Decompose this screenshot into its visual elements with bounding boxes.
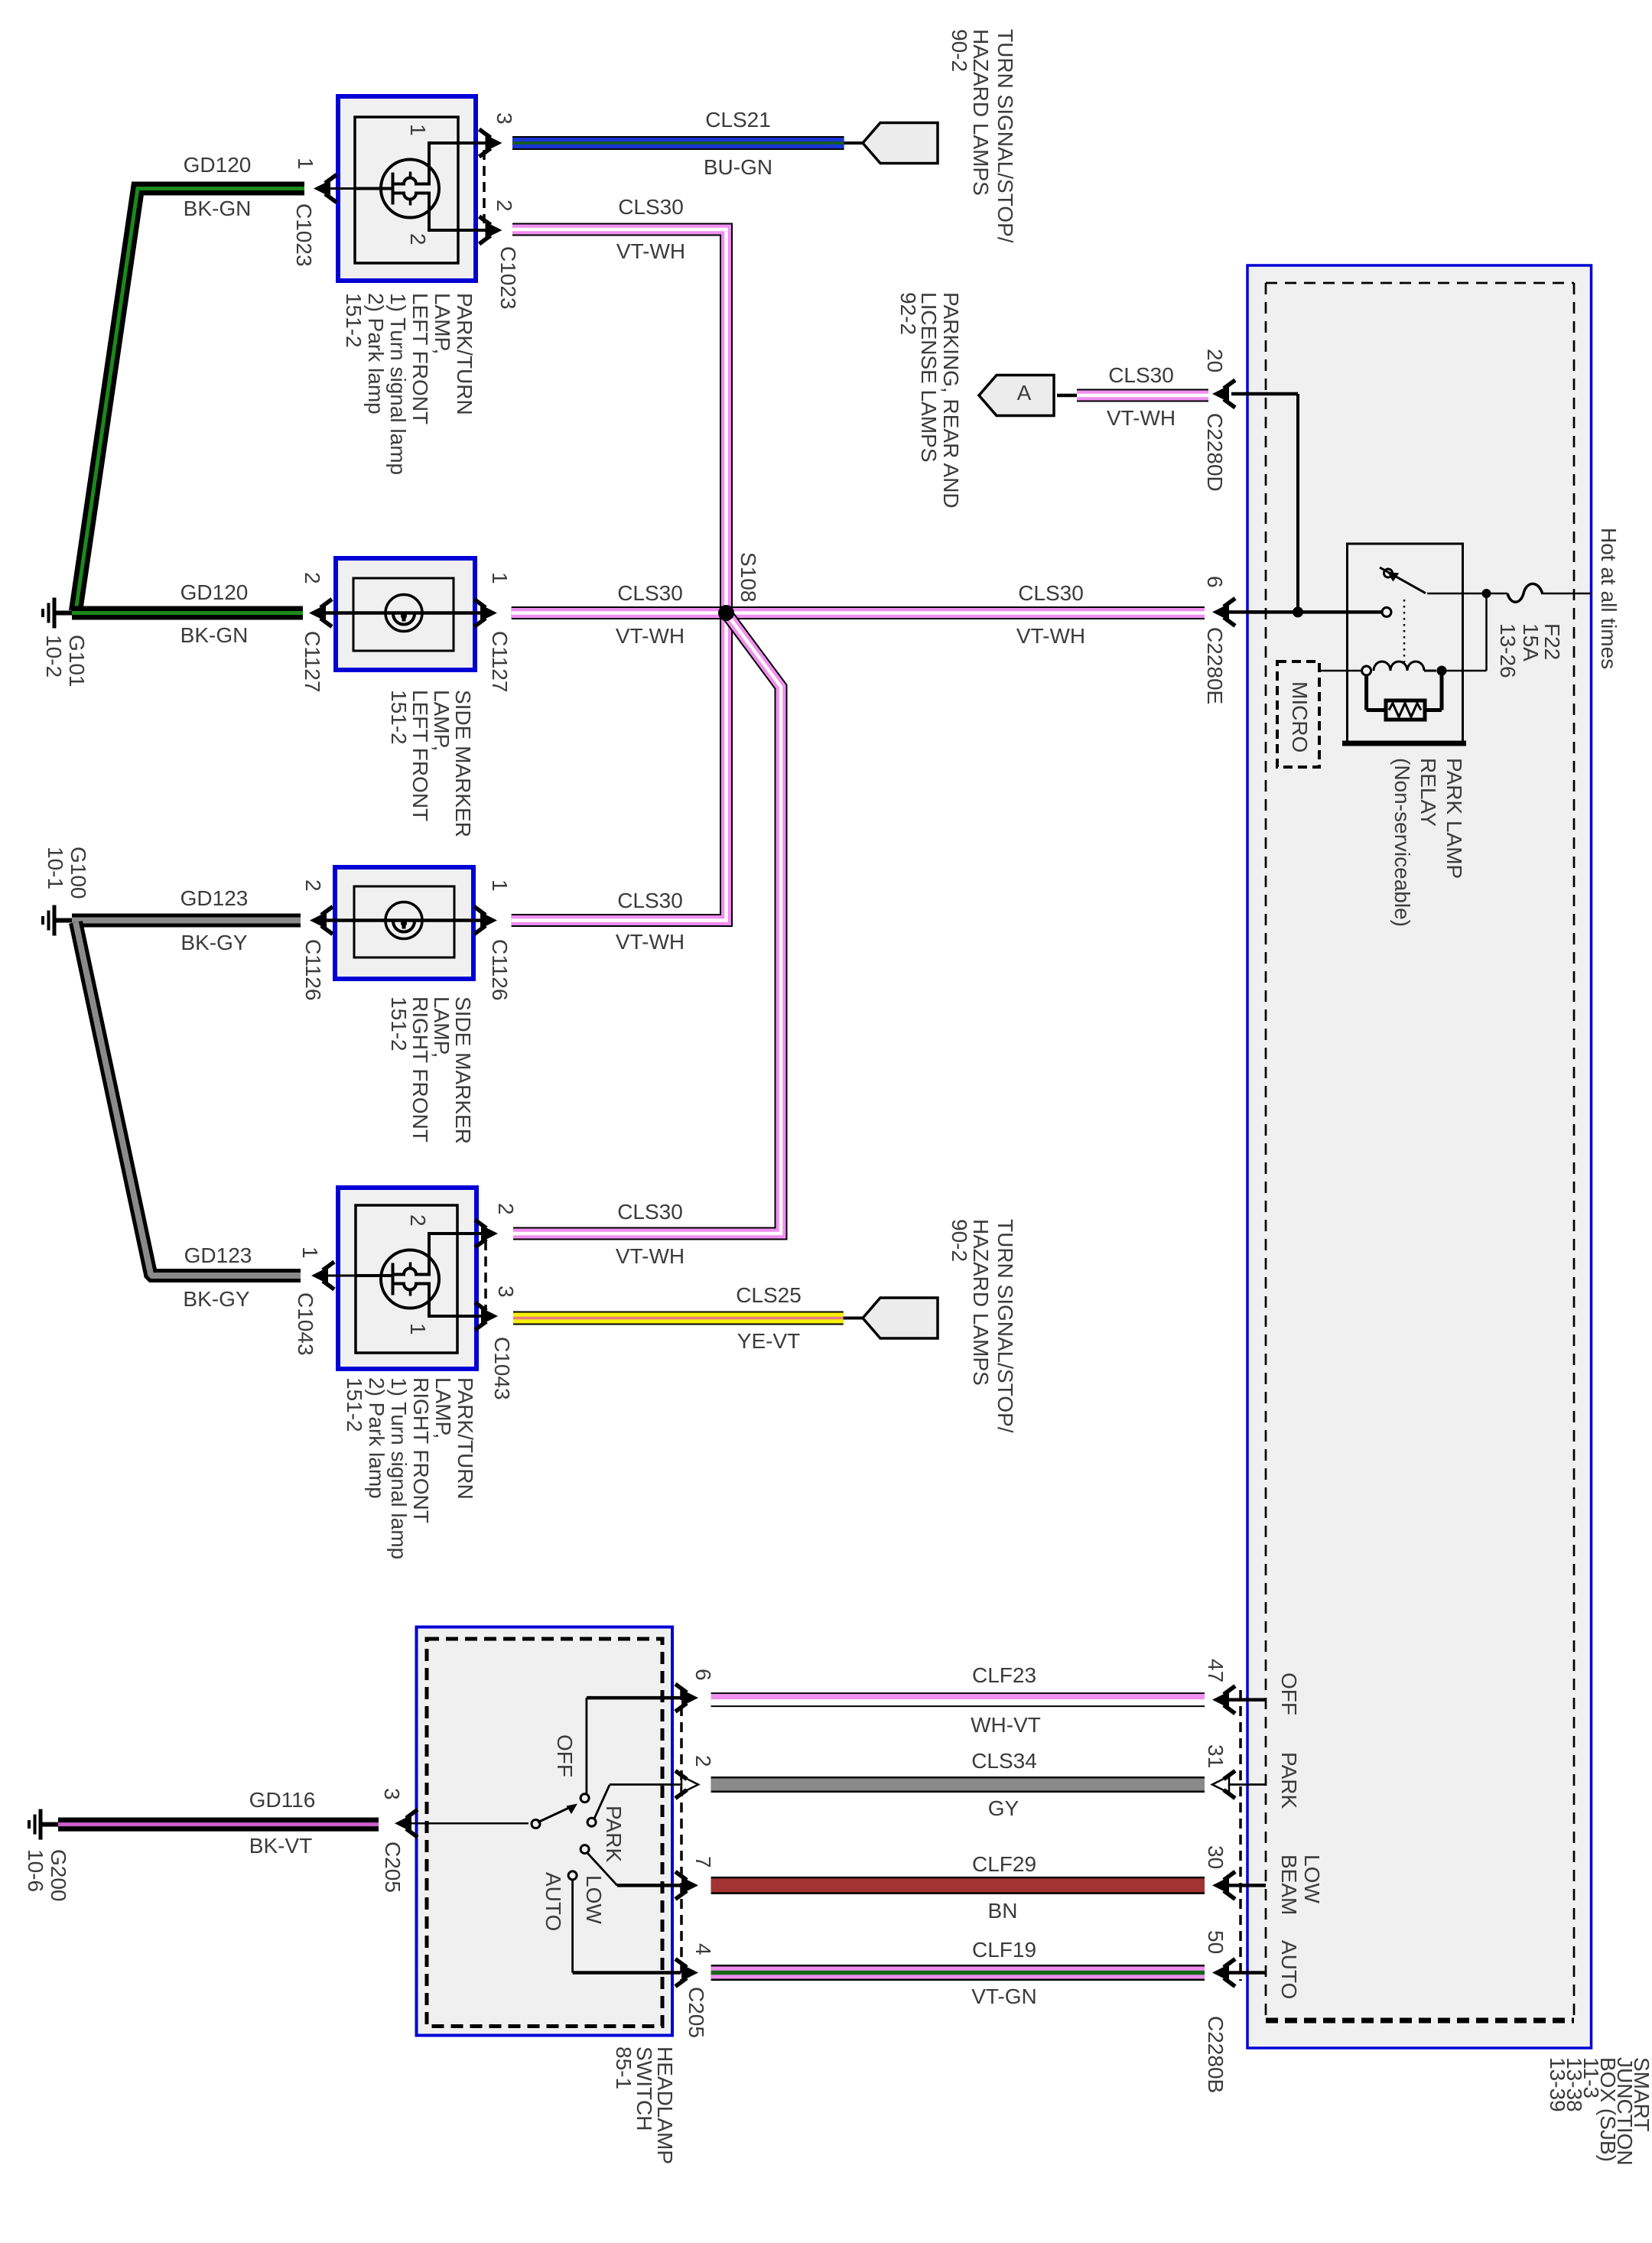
svg-text:30: 30	[1204, 1845, 1228, 1869]
bulb park/turn right	[381, 1250, 439, 1308]
wire label CLS34	[971, 1749, 1037, 1773]
wire CLS30 S108 down to side marker right	[512, 613, 727, 921]
svg-text:10-1: 10-1	[44, 847, 67, 889]
svg-text:SIDE MARKER: SIDE MARKER	[451, 690, 475, 837]
wire label CLS25	[736, 1283, 802, 1307]
label AUTO (SJB)	[1277, 1940, 1301, 1999]
connector C2280E label	[1203, 627, 1227, 704]
svg-text:CLS30: CLS30	[1108, 363, 1174, 387]
pin 2 arrow	[480, 216, 502, 244]
net label Hot at all times	[1597, 528, 1621, 669]
svg-text:10-2: 10-2	[42, 635, 66, 678]
wire label CLF19	[972, 1938, 1036, 1962]
switch label HEADLAMP SWITCH 85-1	[612, 2046, 677, 2164]
connector C1023 label left	[292, 203, 316, 267]
component label side marker lamp right front	[387, 996, 475, 1144]
svg-text:1: 1	[488, 879, 512, 892]
wire CLF29 BN	[711, 1877, 1205, 1894]
pin 2 label	[301, 572, 324, 584]
svg-text:C1023: C1023	[292, 203, 316, 267]
label PARK (SJB)	[1277, 1752, 1301, 1809]
relay NO contact	[1382, 607, 1391, 616]
svg-text:1: 1	[406, 1323, 430, 1335]
component label park/turn lamp right front	[343, 1377, 477, 1559]
svg-text:G101: G101	[65, 635, 89, 688]
svg-text:2: 2	[493, 200, 516, 212]
svg-text:47: 47	[1204, 1659, 1228, 1682]
svg-text:CLS30: CLS30	[617, 889, 683, 912]
wire label YE-VT	[737, 1329, 800, 1353]
svg-text:VT-WH: VT-WH	[616, 1244, 685, 1268]
ground G100	[43, 905, 72, 936]
svg-text:85-1: 85-1	[612, 2046, 636, 2089]
svg-text:LAMP,: LAMP,	[431, 293, 454, 354]
svg-text:1) Turn signal lamp: 1) Turn signal lamp	[386, 293, 410, 475]
pin 47 label	[1204, 1659, 1228, 1682]
MICRO dashed box	[1277, 662, 1319, 767]
pin 31 label	[1204, 1744, 1228, 1768]
svg-text:2) Park lamp: 2) Park lamp	[365, 1377, 389, 1499]
svg-text:BN: BN	[988, 1899, 1018, 1923]
svg-text:3: 3	[494, 1286, 518, 1298]
switch LOW contact	[580, 1845, 589, 1854]
wire relay coil to micro	[1319, 670, 1362, 672]
svg-text:HAZARD LAMPS: HAZARD LAMPS	[969, 29, 993, 196]
pin 30 arrow	[1212, 1871, 1266, 1899]
svg-text:PARK: PARK	[602, 1806, 626, 1862]
svg-text:MICRO: MICRO	[1288, 681, 1312, 753]
label OFF	[553, 1734, 577, 1777]
pin 50 arrow	[1212, 1959, 1266, 1987]
svg-text:C2280E: C2280E	[1203, 627, 1227, 704]
svg-text:VT-WH: VT-WH	[1107, 406, 1176, 430]
wire CLS30 from park/turn left pin 2 down to S108	[512, 229, 727, 613]
svg-text:BK-GN: BK-GN	[180, 623, 249, 647]
svg-text:LOW: LOW	[582, 1875, 606, 1924]
switch arm	[538, 1804, 577, 1823]
wire fuse to relay coil	[1485, 593, 1488, 671]
relay coil link dotted	[1403, 600, 1406, 664]
pin 6 label	[691, 1669, 715, 1681]
wire CLS25 YE-VT	[513, 1312, 844, 1325]
off-page connector to turn signal lamps (top)	[863, 123, 938, 164]
wire pin2 internal	[429, 1232, 492, 1235]
svg-text:BK-GN: BK-GN	[184, 197, 252, 220]
wire label BK-GN	[180, 623, 249, 647]
pin 3 arrow	[480, 129, 502, 157]
net label TURN SIGNAL/STOP/ HAZARD LAMPS 90-2 (bottom)	[948, 1219, 1017, 1433]
pin 1 arrow	[311, 1262, 356, 1289]
svg-text:CLS30: CLS30	[618, 195, 684, 219]
relay NC contact	[1384, 569, 1393, 577]
svg-text:151-2: 151-2	[342, 293, 366, 348]
pin 30 label	[1204, 1845, 1228, 1869]
svg-text:LAMP,: LAMP,	[430, 690, 454, 751]
switch common contact	[532, 1820, 540, 1829]
svg-text:LOW: LOW	[1300, 1855, 1324, 1903]
pin 2 label	[691, 1755, 715, 1767]
wire label CLS30	[617, 1200, 683, 1224]
pin 3 label	[493, 112, 516, 125]
pin 3 arrow	[475, 1302, 498, 1330]
svg-text:GY: GY	[988, 1796, 1019, 1820]
svg-text:C1023: C1023	[496, 246, 520, 310]
side marker lamp left front box	[336, 558, 475, 670]
svg-text:1: 1	[406, 124, 430, 136]
svg-text:151-2: 151-2	[387, 996, 411, 1052]
svg-text:6: 6	[691, 1669, 715, 1681]
svg-text:C1043: C1043	[490, 1337, 514, 1400]
svg-text:2: 2	[406, 233, 430, 245]
off-page connector to turn signal lamps (bottom)	[863, 1298, 938, 1338]
connector C205 dashed line	[680, 1690, 683, 1981]
wire junction up to pin 20	[1231, 394, 1298, 612]
fuse F22 15A	[1427, 584, 1591, 602]
connector C2280B label	[1204, 2016, 1228, 2093]
svg-text:AUTO: AUTO	[541, 1872, 565, 1931]
svg-text:YE-VT: YE-VT	[737, 1329, 800, 1353]
wire CLF19 VT-GN	[711, 1965, 1205, 1981]
splice S108	[718, 605, 734, 621]
wire label WH-VT	[971, 1713, 1041, 1737]
headlamp switch box	[417, 1627, 673, 2036]
bulb side marker left	[385, 595, 422, 632]
svg-text:C2280B: C2280B	[1204, 2016, 1228, 2093]
svg-text:6: 6	[1203, 576, 1227, 588]
svg-text:RIGHT FRONT: RIGHT FRONT	[409, 1377, 433, 1523]
pin 6 label	[1203, 576, 1227, 588]
pin 50 label	[1204, 1930, 1228, 1954]
Smart Junction Box (SJB) outline	[1247, 265, 1592, 2048]
wire GD123 BK-GY	[72, 914, 301, 928]
ground G101	[43, 598, 72, 629]
pin 2 arrow	[475, 1220, 498, 1247]
pin 1 arrow	[474, 600, 497, 627]
connector C2280D label	[1203, 413, 1227, 492]
pin 47 arrow	[1212, 1686, 1266, 1714]
pin 2 label	[301, 879, 325, 892]
wire label CLS30	[617, 889, 683, 912]
pin 1 label (internal)	[406, 124, 430, 136]
wire GD120 BK-GN upper+diagonal	[76, 189, 304, 612]
wire GD123 diagonal+lower	[76, 922, 301, 1276]
pin 2 arrow	[675, 1771, 698, 1799]
wire CLS30 S108 to SJB pin 6	[727, 606, 1205, 619]
wire pin2 internal	[429, 229, 492, 232]
bulb internal wiring left	[355, 141, 429, 232]
svg-text:G200: G200	[47, 1849, 70, 1902]
pin 3 arrow	[395, 1809, 418, 1837]
MICRO label	[1288, 681, 1312, 753]
svg-text:C205: C205	[381, 1842, 405, 1893]
wire label CLF23	[972, 1663, 1036, 1687]
svg-text:PARK LAMP: PARK LAMP	[1442, 758, 1466, 879]
svg-text:CLS30: CLS30	[1018, 581, 1084, 605]
svg-text:CLS34: CLS34	[971, 1749, 1037, 1773]
svg-text:1) Turn signal lamp: 1) Turn signal lamp	[387, 1377, 411, 1559]
svg-text:CLS30: CLS30	[617, 1200, 683, 1224]
SJB inner dashed border	[1266, 283, 1574, 2020]
relay label PARK LAMP RELAY (Non-serviceable)	[1390, 758, 1466, 927]
svg-text:LAMP,: LAMP,	[430, 996, 454, 1058]
pin 2 arrow	[309, 600, 332, 627]
label AUTO	[541, 1872, 565, 1931]
splice label S108	[737, 552, 760, 602]
svg-text:2: 2	[301, 572, 324, 584]
relay coil	[1362, 662, 1487, 676]
label OFF (SJB)	[1277, 1672, 1301, 1715]
svg-text:PARK/TURN: PARK/TURN	[453, 293, 476, 415]
svg-text:90-2: 90-2	[948, 1219, 971, 1262]
svg-text:2: 2	[494, 1203, 518, 1215]
net label TURN SIGNAL/STOP/ HAZARD LAMPS 90-2 (top)	[948, 29, 1017, 243]
svg-text:PARK/TURN: PARK/TURN	[454, 1377, 477, 1500]
wire label CLS30	[618, 195, 684, 219]
pin 1 arrow	[474, 907, 497, 935]
wire AUTO contact to pin 4	[573, 1880, 681, 1973]
connector C1023 label right	[496, 246, 520, 310]
SJB label SMART JUNCTION BOX (SJB) 11-3 13-38 13-39	[1546, 2057, 1652, 2166]
wire label BK-GN	[184, 197, 252, 220]
connector C205 label left	[381, 1842, 405, 1893]
svg-text:GD116: GD116	[249, 1788, 316, 1812]
svg-text:C1126: C1126	[488, 939, 512, 1000]
svg-text:CLS21: CLS21	[705, 108, 771, 132]
wire label BU-GN	[704, 155, 772, 179]
svg-text:A: A	[1017, 381, 1032, 405]
wire stub to pentagon	[844, 141, 863, 145]
wire label GD123	[180, 886, 249, 910]
wire stub to pentagon	[844, 1317, 863, 1320]
connector C1043 label right	[490, 1337, 514, 1400]
wire LOW contact to pin 7	[587, 1853, 681, 1885]
pin 6 arrow	[675, 1684, 698, 1712]
label LOW	[582, 1875, 606, 1924]
svg-text:VT-WH: VT-WH	[616, 930, 685, 954]
svg-text:10-6: 10-6	[24, 1849, 47, 1892]
svg-text:GD123: GD123	[184, 1243, 252, 1267]
wire label BK-VT	[249, 1834, 312, 1858]
connector C1127 label left	[301, 631, 324, 692]
svg-text:VT-WH: VT-WH	[1016, 624, 1085, 648]
svg-text:VT-GN: VT-GN	[971, 1985, 1037, 2008]
svg-text:1: 1	[298, 1247, 322, 1259]
svg-text:C205: C205	[685, 1987, 708, 2038]
ground G200	[29, 1809, 58, 1840]
svg-text:151-2: 151-2	[343, 1377, 366, 1432]
wire label GD123	[184, 1243, 252, 1267]
svg-text:RIGHT FRONT: RIGHT FRONT	[408, 996, 432, 1143]
svg-text:13-39: 13-39	[1546, 2057, 1569, 2112]
connector C1043 label left	[294, 1292, 317, 1356]
wire label VT-WH	[616, 239, 685, 263]
wire OFF contact to pin 6	[587, 1698, 681, 1794]
wire CLS30 side marker left to S108	[512, 606, 727, 619]
bulb internal wiring right	[356, 1232, 429, 1318]
connector C1126 label left	[301, 939, 325, 1000]
svg-text:1: 1	[294, 158, 317, 170]
wire stub pentagon A	[1057, 394, 1077, 398]
svg-text:151-2: 151-2	[387, 690, 411, 745]
svg-text:2: 2	[301, 879, 325, 892]
svg-text:1: 1	[488, 572, 512, 584]
pin 4 arrow	[675, 1959, 698, 1987]
component label park/turn lamp left front	[342, 293, 476, 475]
svg-text:PARKING, REAR AND: PARKING, REAR AND	[939, 292, 963, 509]
svg-text:13-26: 13-26	[1496, 623, 1520, 678]
svg-text:C2280D: C2280D	[1203, 413, 1227, 492]
svg-text:CLS30: CLS30	[617, 581, 683, 605]
svg-text:S108: S108	[737, 552, 760, 602]
svg-text:3: 3	[493, 112, 516, 125]
wire label VT-WH	[1107, 406, 1176, 430]
wire label GD116	[249, 1788, 316, 1812]
svg-text:15A: 15A	[1519, 623, 1543, 662]
svg-text:2: 2	[691, 1755, 715, 1767]
wire label BK-GY	[183, 1287, 249, 1311]
svg-text:31: 31	[1204, 1744, 1228, 1768]
wire pin3 internal	[429, 141, 492, 145]
svg-text:7: 7	[691, 1856, 715, 1868]
pin 1 label	[294, 158, 317, 170]
svg-text:2: 2	[406, 1214, 430, 1227]
svg-text:OFF: OFF	[553, 1734, 577, 1777]
wire CLS30 S108 diagonal to park/turn right	[513, 616, 781, 1234]
pin 1 label	[488, 572, 512, 584]
wire GD120 BK-GN lower	[72, 606, 303, 620]
svg-text:BK-VT: BK-VT	[249, 1834, 312, 1858]
wire CLS34 GY	[711, 1777, 1205, 1793]
wire CLF23 WH-VT	[711, 1694, 1205, 1700]
off-page connector A (parking rear and license lamps)	[979, 375, 1054, 416]
pin 6 arrow	[1212, 598, 1266, 626]
svg-text:C1127: C1127	[301, 631, 324, 692]
connector C1023 dashed line	[483, 150, 486, 223]
svg-text:AUTO: AUTO	[1277, 1940, 1301, 1999]
wire label GD120	[180, 580, 249, 604]
svg-text:TURN SIGNAL/STOP/: TURN SIGNAL/STOP/	[993, 1219, 1017, 1433]
relay switch arm	[1380, 567, 1426, 593]
svg-text:BU-GN: BU-GN	[704, 155, 772, 179]
wire relay output to pin 6	[1247, 610, 1382, 614]
pin 1 arrow	[314, 175, 355, 203]
svg-text:PARK: PARK	[1277, 1752, 1301, 1809]
park/turn lamp left front box	[338, 96, 476, 281]
connector C1127 label right	[488, 631, 512, 692]
svg-text:2) Park lamp: 2) Park lamp	[364, 293, 388, 414]
wire through side marker right	[327, 918, 488, 922]
wire CLS30 VT-WH to pentagon A	[1077, 389, 1208, 402]
svg-text:3: 3	[380, 1788, 404, 1800]
ground label G200 10-6	[24, 1849, 70, 1902]
park lamp relay box	[1342, 544, 1466, 743]
svg-text:G100: G100	[67, 847, 90, 899]
svg-text:LEFT FRONT: LEFT FRONT	[408, 293, 432, 424]
connector C1043 dashed line	[484, 1240, 487, 1309]
ground label G100 10-1	[44, 847, 90, 899]
wire label GD120	[184, 153, 252, 177]
bulb side marker right	[385, 902, 422, 939]
svg-text:BEAM: BEAM	[1277, 1855, 1301, 1915]
svg-text:LAMP,: LAMP,	[431, 1377, 455, 1438]
wire label VT-WH	[616, 930, 685, 954]
svg-text:CLF29: CLF29	[972, 1852, 1036, 1876]
svg-text:CLS25: CLS25	[736, 1283, 802, 1307]
switch AUTO contact	[568, 1871, 577, 1880]
svg-text:50: 50	[1204, 1930, 1228, 1954]
svg-text:Hot at all times: Hot at all times	[1597, 528, 1621, 669]
svg-text:GD120: GD120	[180, 580, 249, 604]
wire label CLF29	[972, 1852, 1036, 1876]
pin 2 arrow	[310, 907, 333, 935]
pin 20 arrow	[1212, 380, 1235, 408]
bulb park/turn left	[381, 160, 439, 218]
svg-text:C1043: C1043	[294, 1292, 317, 1356]
pin 4 label	[691, 1943, 715, 1955]
pin 1 label (internal)	[406, 1323, 430, 1335]
svg-text:4: 4	[691, 1943, 715, 1955]
svg-text:VT-WH: VT-WH	[616, 239, 685, 263]
switch PARK contact	[587, 1818, 596, 1826]
pin 31 arrow	[1212, 1771, 1266, 1799]
pin 3 label	[380, 1788, 404, 1800]
ground label G101 10-2	[42, 635, 89, 688]
svg-text:VT-WH: VT-WH	[616, 624, 685, 648]
wire GD116 BK-VT	[58, 1818, 379, 1832]
side marker lamp right front box	[335, 867, 473, 979]
svg-text:C1127: C1127	[488, 631, 512, 692]
connector C1126 label right	[488, 939, 512, 1000]
label PARK	[602, 1806, 626, 1862]
wire pin3 internal	[429, 1315, 492, 1318]
wire label CLS30	[617, 581, 683, 605]
svg-text:LEFT FRONT: LEFT FRONT	[408, 690, 432, 821]
pin 2 label (internal)	[406, 233, 430, 245]
pin 2 label	[494, 1203, 518, 1215]
svg-text:(Non-serviceable): (Non-serviceable)	[1390, 758, 1414, 927]
pin 1 label	[298, 1247, 322, 1259]
pin 3 label	[494, 1286, 518, 1298]
wire label CLS30	[1018, 581, 1084, 605]
pin 20 label	[1203, 349, 1227, 372]
switch OFF contact	[580, 1794, 589, 1803]
wire PARK contact to pin 2	[594, 1785, 682, 1819]
svg-text:TURN SIGNAL/STOP/: TURN SIGNAL/STOP/	[993, 29, 1017, 243]
pin 7 arrow	[675, 1871, 698, 1899]
wire label BK-GY	[180, 931, 247, 954]
wire label VT-WH	[616, 624, 685, 648]
svg-text:GD120: GD120	[184, 153, 252, 177]
fuse label F22 15A 13-26	[1496, 623, 1564, 678]
pin 7 label	[691, 1856, 715, 1868]
svg-text:BK-GY: BK-GY	[183, 1287, 249, 1311]
svg-text:C1126: C1126	[301, 939, 325, 1000]
park/turn lamp right front box	[338, 1188, 476, 1369]
svg-text:CLF19: CLF19	[972, 1938, 1036, 1962]
pin 2 label (internal)	[406, 1214, 430, 1227]
svg-text:92-2: 92-2	[896, 292, 920, 335]
component label side marker lamp left front	[387, 690, 475, 837]
svg-text:SIDE MARKER: SIDE MARKER	[451, 996, 475, 1144]
pin 1 label	[488, 879, 512, 892]
wire through side marker left	[326, 611, 488, 615]
wire label VT-GN	[971, 1985, 1037, 2008]
svg-text:WH-VT: WH-VT	[971, 1713, 1041, 1737]
wire label VT-WH	[616, 1244, 685, 1268]
pin 2 label	[493, 200, 516, 212]
wire label CLS30	[1108, 363, 1174, 387]
wire label BN	[988, 1899, 1018, 1923]
